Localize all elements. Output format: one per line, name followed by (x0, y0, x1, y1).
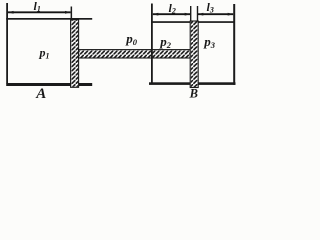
svg-text:A: A (35, 86, 46, 100)
svg-text:B: B (189, 86, 198, 100)
